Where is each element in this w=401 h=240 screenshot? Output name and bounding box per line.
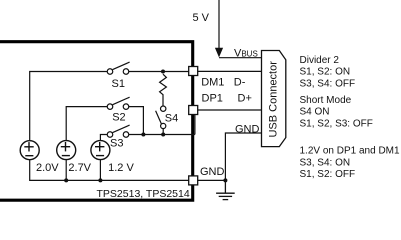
svg-text:S1, S2: ON: S1, S2: ON <box>300 67 351 78</box>
wire DM1 pin to D- <box>198 70 262 72</box>
switch S2 <box>107 97 129 109</box>
voltage source V1 2.0V <box>20 141 39 160</box>
junction 1.2V rail <box>98 178 102 182</box>
pin GND <box>189 176 198 185</box>
svg-text:S1, S2, S3: OFF: S1, S2, S3: OFF <box>300 119 373 130</box>
voltage source V2 2.7V <box>57 141 76 160</box>
svg-text:D+: D+ <box>238 92 252 104</box>
ground symbol <box>216 180 235 199</box>
svg-text:S3, S4: OFF: S3, S4: OFF <box>300 78 356 89</box>
wire bottom rail sources to GND pin <box>30 160 189 181</box>
junction 2.7V rail <box>64 178 68 182</box>
wire 2.0V source to S1 <box>30 72 108 141</box>
wire 1.2V bottom stub <box>99 160 101 181</box>
wire 2.7V source to S2 <box>66 107 107 141</box>
junction resistor top node <box>161 70 165 74</box>
svg-text:VBUS: VBUS <box>234 47 258 59</box>
wire 2.7V bottom stub <box>65 160 67 181</box>
svg-text:S2: S2 <box>112 111 125 123</box>
svg-text:GND: GND <box>200 166 225 178</box>
wire 1.2V source to S3 <box>100 135 107 141</box>
resistor R (divider) <box>160 74 167 106</box>
svg-text:S3: S3 <box>110 138 123 150</box>
wire DP1 stub vertical <box>194 115 196 135</box>
svg-text:S4: S4 <box>165 113 178 125</box>
svg-text:Divider 2: Divider 2 <box>300 55 340 66</box>
svg-text:GND: GND <box>235 123 260 135</box>
wire USB GND to junction <box>225 133 261 180</box>
wire S1 to DM1 pin <box>129 71 189 73</box>
wire VBUS to connector <box>219 57 262 59</box>
svg-text:1.2V on DP1 and DM1: 1.2V on DP1 and DM1 <box>300 146 400 157</box>
wire GND pin to ground junction <box>198 179 226 181</box>
svg-text:DP1: DP1 <box>202 92 223 104</box>
svg-text:DM1: DM1 <box>201 76 224 88</box>
wire DP1 pin to D+ <box>198 109 262 111</box>
pin DM1 <box>189 67 198 76</box>
svg-text:2.7V: 2.7V <box>68 162 91 174</box>
svg-text:5 V: 5 V <box>193 12 210 24</box>
svg-text:S1, S2: OFF: S1, S2: OFF <box>300 169 356 180</box>
switch S4 (vertical) <box>156 106 166 135</box>
IC block outline TPS2513 (thick partial rectangle) <box>0 42 193 201</box>
svg-text:S1: S1 <box>112 78 125 90</box>
svg-text:1.2 V: 1.2 V <box>108 162 134 174</box>
svg-text:USB Connector: USB Connector <box>267 61 279 138</box>
junction S4 node <box>161 133 165 137</box>
svg-text:S3, S4: ON: S3, S4: ON <box>300 157 351 168</box>
USB connector body <box>262 51 286 147</box>
switch S3 <box>107 125 129 137</box>
junction S2 node <box>141 133 145 137</box>
junction GND node <box>223 178 227 182</box>
voltage source V3 1.2V <box>91 141 110 160</box>
svg-text:2.0V: 2.0V <box>36 162 59 174</box>
svg-text:TPS2513, TPS2514: TPS2513, TPS2514 <box>97 188 190 200</box>
wire S3 row to DP1 stub <box>129 134 195 136</box>
5V arrow stem <box>218 0 220 49</box>
svg-text:S4 ON: S4 ON <box>300 107 330 118</box>
svg-text:D-: D- <box>234 76 246 88</box>
wire S2 output down to node row <box>129 107 144 135</box>
5V arrowhead <box>215 48 223 58</box>
pin DP1 <box>189 106 198 115</box>
switch S1 <box>107 62 129 74</box>
svg-text:Short Mode: Short Mode <box>300 95 352 106</box>
